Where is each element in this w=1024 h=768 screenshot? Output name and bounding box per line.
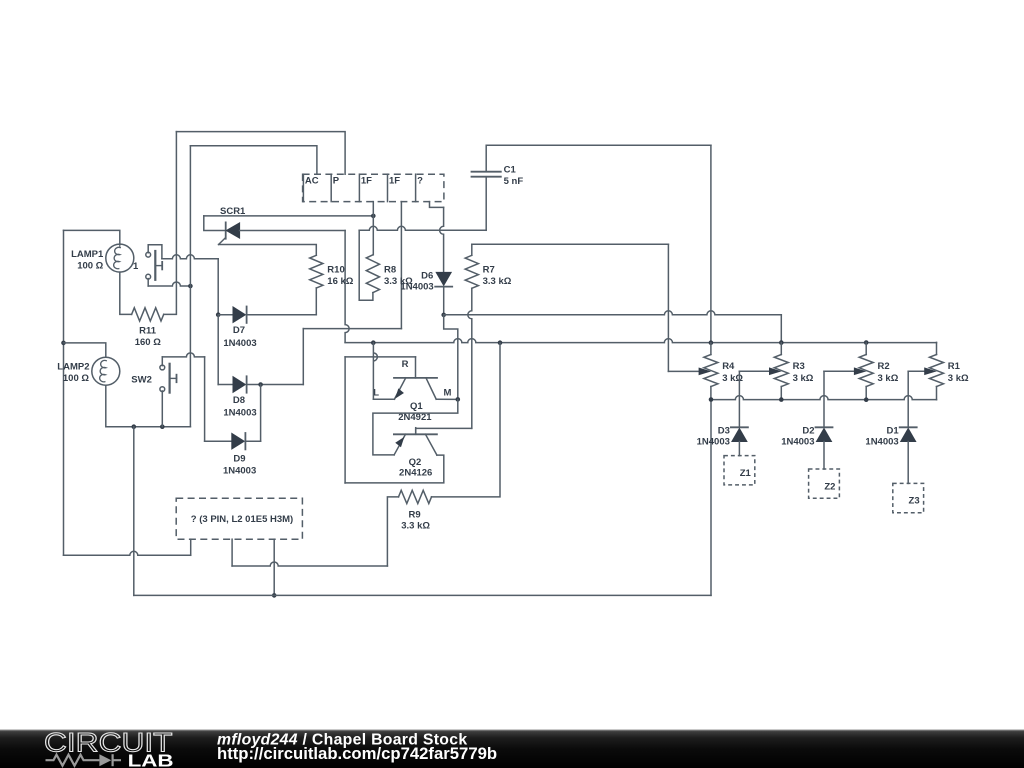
node D8-cathode / D9 branch [258, 382, 263, 387]
wire left vertical rail [63, 230, 65, 555]
svg-text:R10: R10 [327, 264, 344, 275]
label Q2 [399, 457, 432, 478]
wire R9 left lead [387, 497, 398, 566]
wire R1 wiper [908, 368, 935, 374]
svg-text:D9: D9 [233, 454, 245, 465]
diode D2 [816, 427, 833, 441]
svg-text:3.3 kΩ: 3.3 kΩ [401, 521, 430, 532]
label R11 [135, 325, 161, 348]
svg-text:R2: R2 [878, 361, 890, 372]
svg-text:D3: D3 [718, 426, 730, 437]
node main-bus / R3 top [779, 340, 784, 345]
node Q1 M junction [456, 397, 461, 402]
svg-text:Z2: Z2 [824, 481, 835, 492]
diode D7 [233, 307, 247, 323]
svg-text:M: M [444, 387, 452, 398]
logo LAB wordmark [128, 750, 174, 768]
wire R2 wiper [824, 368, 865, 374]
label D8 [223, 395, 256, 419]
wire R9 right lead to main bus [432, 343, 501, 497]
wire SW2 bottom terminal [161, 391, 163, 427]
label D2 [781, 426, 814, 448]
label R10 [327, 264, 353, 287]
wire R3 wiper column to D3 [738, 371, 740, 427]
wire R7 bottom to Q2 base [416, 288, 472, 434]
svg-text:LAMP2: LAMP2 [57, 361, 89, 372]
wire SW2 top terminal to D9 row [162, 353, 204, 441]
svg-text:D8: D8 [233, 395, 245, 406]
wire M node down-left to Q2 emitter [373, 399, 458, 455]
wire module pin5 to D6 [430, 202, 444, 273]
svg-text:3.3 kΩ: 3.3 kΩ [483, 276, 512, 287]
resistor R10 [310, 255, 323, 288]
wire D6 cathode lead [443, 287, 445, 315]
wire D8 cathode row [247, 384, 304, 386]
diode D9 [232, 433, 246, 449]
label R7 [483, 264, 512, 287]
wire SCR top rail y=215.9 [204, 215, 373, 217]
module pin line 4 (1F) [388, 174, 401, 201]
node main-bus / R2 top [864, 340, 869, 345]
rheostat R4 [704, 355, 718, 387]
wire D3 anode lead to Z1 [738, 442, 740, 456]
svg-text:100 Ω: 100 Ω [77, 260, 103, 271]
module pin line 3 (1F) [359, 174, 372, 201]
wire top inner horizontal to module pin AC [190, 146, 317, 174]
svg-text:R1: R1 [948, 361, 961, 372]
svg-text:1N4003: 1N4003 [223, 338, 256, 349]
capacitor C1 [472, 172, 501, 177]
wire rheostat bottoms to row [711, 387, 937, 400]
module pin line 2 (P) [331, 174, 340, 201]
wire Q2 collector to Q1-base link [345, 455, 444, 483]
probe box Z1 [724, 456, 755, 485]
footer author / title text [217, 731, 467, 748]
wire Q1 right leg to M node [436, 398, 458, 400]
label R4 [722, 361, 743, 384]
svg-text:R: R [402, 359, 409, 370]
wire D8 anode lead [218, 384, 233, 386]
wire R8 bottom wrap to C1 bottom [359, 177, 486, 301]
svg-text:1N4003: 1N4003 [865, 437, 898, 448]
IC module ? (3 PIN, L2 01E5 H3M) dashed box [176, 498, 302, 539]
wire D7-D8 column x=218.2 [217, 315, 219, 385]
svg-text:?: ? [417, 176, 423, 187]
wire Q1-base/Q2-collector link x=345.1 [344, 357, 346, 483]
wire D7 cathode to R10 bottom [247, 314, 317, 316]
wire main bus y=342.6 [345, 339, 936, 343]
resistor R7 [465, 255, 478, 288]
resistor R11 [132, 308, 164, 321]
svg-text:160 Ω: 160 Ω [135, 337, 161, 348]
label LAMP2 [57, 361, 89, 384]
wire D7 anode lead [218, 314, 233, 316]
svg-text:C1: C1 [504, 164, 517, 175]
wire SCR anode drop x=345.1 [345, 231, 349, 343]
wire R7 top wire to R4 wiper [472, 244, 710, 374]
svg-text:1N4003: 1N4003 [400, 281, 433, 292]
svg-text:R11: R11 [139, 325, 157, 336]
label R9 [401, 509, 430, 531]
wire top-left rail (LAMP1 top to left rail) [64, 230, 120, 244]
wire bottom bus y=595.4 [134, 400, 711, 596]
label SW2 [131, 374, 152, 385]
svg-text:R9: R9 [409, 509, 421, 520]
node LAMP2-row / dropper branch [132, 424, 137, 429]
svg-text:AC: AC [305, 176, 319, 187]
wire top horizontal to module pin P [176, 132, 345, 175]
wire dropper x=133.8 to bottom bus [133, 427, 135, 596]
rheostat R3 [774, 355, 788, 387]
wire module pin3 drop [372, 202, 374, 216]
node main-bus / R9 branch [498, 340, 503, 345]
node SW1-bottom / riser junction [188, 284, 193, 289]
wire D9 cathode riser x=260.6 [260, 385, 262, 442]
wire R10 bottom lead [315, 288, 317, 315]
svg-text:R8: R8 [384, 264, 396, 275]
label D7 [223, 325, 256, 349]
label D3 [697, 426, 730, 448]
svg-text:LAB: LAB [128, 750, 174, 768]
wire module2 pin2 to R9 left [232, 539, 387, 566]
logo CIRCUIT wordmark [44, 728, 173, 758]
svg-text:3 kΩ: 3 kΩ [948, 373, 969, 384]
svg-text:16 kΩ: 16 kΩ [327, 276, 353, 287]
wire R1 wiper column to D1 [907, 371, 909, 427]
label R2 [878, 361, 899, 384]
wire SW1 top terminal to D7 column [148, 245, 218, 315]
wire D1 anode lead to Z3 [907, 442, 909, 484]
wire D8 net to module pin4 [303, 202, 401, 385]
rheostat R1 [930, 355, 944, 387]
svg-text:D1: D1 [887, 426, 900, 437]
svg-text:1: 1 [133, 261, 139, 272]
diode D8 [233, 376, 247, 392]
label R (Q1 base net) [402, 359, 409, 370]
svg-text:R7: R7 [483, 264, 495, 275]
svg-text:Z3: Z3 [909, 496, 920, 507]
wire LAMP1 bottom lead [120, 272, 132, 314]
svg-text:1N4003: 1N4003 [223, 466, 256, 477]
wire Q1 left leg to main bus [373, 343, 394, 400]
svg-text:D6: D6 [421, 271, 433, 282]
footer black bar [0, 730, 1024, 768]
svg-text:3 kΩ: 3 kΩ [722, 373, 743, 384]
wire D2 anode lead to Z2 [823, 442, 825, 470]
label C1 [504, 164, 524, 187]
thyristor SCR1 [204, 216, 345, 245]
label M (Q1 right node) [444, 387, 452, 398]
svg-text:http://circuitlab.com/cp742far: http://circuitlab.com/cp742far5779b [217, 744, 497, 763]
label SW1 remnant 1 [133, 261, 139, 272]
svg-text:100 Ω: 100 Ω [63, 373, 89, 384]
probe box Z2 [809, 469, 840, 498]
svg-text:Q2: Q2 [409, 457, 422, 468]
wire mid bus y=314.8 (D6 net) [444, 311, 782, 343]
footer url text [217, 744, 497, 763]
node LAMP2-row / SW2 branch [160, 424, 165, 429]
svg-text:1N4003: 1N4003 [697, 437, 730, 448]
probe box Z3 [893, 483, 924, 512]
label R8 [384, 264, 413, 287]
module pin line 5 (?) [416, 174, 424, 201]
node R4 bottom junction [709, 397, 714, 402]
svg-text:3 kΩ: 3 kΩ [878, 373, 899, 384]
wire R11 right lead / vertical riser x=176.4 [164, 132, 177, 315]
label R3 [793, 361, 814, 384]
wire D6-node jog down to Q1 M [444, 315, 458, 400]
svg-text:LAMP1: LAMP1 [71, 249, 104, 260]
wire R8 top lead [372, 216, 374, 255]
svg-text:1N4003: 1N4003 [223, 408, 256, 419]
wire R2 wiper column to D2 [823, 371, 825, 427]
wire D9 anode lead [205, 440, 232, 442]
label R1 [948, 361, 969, 384]
node left-rail / LAMP2 branch [61, 341, 66, 346]
node bottom bus / module2 pin3 [272, 593, 277, 598]
label ? (3 PIN, L2 01E5 H3M) [191, 514, 293, 525]
pushbutton SW1 [146, 251, 162, 280]
wire rheostat top feeds [711, 342, 937, 354]
svg-text:2N4126: 2N4126 [399, 467, 432, 478]
node main-bus / R4 top [709, 340, 714, 345]
label D1 [865, 426, 899, 448]
resistor R9 [399, 490, 432, 503]
wire bottom-left horizontal to module P1 [64, 551, 191, 555]
svg-text:? (3 PIN, L2 01E5 H3M): ? (3 PIN, L2 01E5 H3M) [191, 514, 293, 525]
svg-text:3 kΩ: 3 kΩ [793, 373, 814, 384]
pushbutton SW2 [160, 364, 177, 393]
wire SCR gate to R10 top [219, 245, 317, 256]
transistor Q2 [394, 428, 437, 455]
wire Q1 base wire from x=345.1 [345, 357, 415, 378]
connector module AC/P/1F/1F/? dashed box [303, 174, 444, 201]
node SCR-rail / module-pin3 / R8-top [371, 214, 376, 219]
label D9 [223, 454, 256, 477]
label SCR1 [220, 206, 246, 217]
diode D6 [435, 272, 452, 286]
wire module2 pin3 drop [273, 539, 275, 595]
wire vertical riser x=190.4 [189, 146, 191, 427]
node R3 bottom junction [779, 397, 784, 402]
rheostat R2 [859, 355, 873, 387]
svg-text:1N4003: 1N4003 [781, 437, 814, 448]
svg-text:1F: 1F [361, 176, 372, 187]
svg-text:5 nF: 5 nF [504, 176, 524, 187]
wire SW1 bottom terminal [148, 279, 190, 286]
node main-bus / Q1-L branch [371, 340, 376, 345]
svg-text:Q1: Q1 [410, 401, 423, 412]
svg-text:P: P [333, 176, 340, 187]
transistor Q1 [394, 378, 437, 399]
resistor R8 [366, 255, 379, 293]
svg-text:R3: R3 [793, 361, 805, 372]
svg-text:SW2: SW2 [131, 374, 152, 385]
diode D1 [900, 427, 917, 441]
wire R7 top lead [471, 244, 473, 255]
svg-text:1F: 1F [389, 176, 400, 187]
svg-text:D7: D7 [233, 325, 245, 336]
label LAMP1 [71, 249, 104, 271]
module pin line 1 (AC) [303, 174, 318, 201]
wire LAMP2 bottom row [106, 386, 191, 427]
lamp LAMP2 [92, 357, 120, 385]
svg-text:Z1: Z1 [740, 468, 752, 479]
wire module pin1 stub [190, 539, 192, 555]
lamp LAMP1 [106, 244, 134, 272]
wire D9 cathode lead [245, 440, 260, 442]
wire R3 wiper [739, 368, 780, 374]
wire pot bottom row y=399.6 [711, 396, 937, 400]
label L (Q1 left node) [373, 387, 379, 398]
wire LAMP2 top lead [64, 343, 106, 357]
label D6 [400, 271, 433, 293]
wire C1 top lead and right rail [486, 145, 711, 343]
label Q1 [398, 401, 432, 423]
svg-text:D2: D2 [802, 426, 814, 437]
diode D3 [731, 427, 748, 441]
node D7 anode junction [216, 312, 221, 317]
svg-text:R4: R4 [722, 361, 735, 372]
node R2 bottom junction [864, 397, 869, 402]
svg-text:L: L [373, 387, 379, 398]
logo resistor-diode squiggle [46, 754, 122, 766]
node D6 bottom junction [441, 313, 446, 318]
